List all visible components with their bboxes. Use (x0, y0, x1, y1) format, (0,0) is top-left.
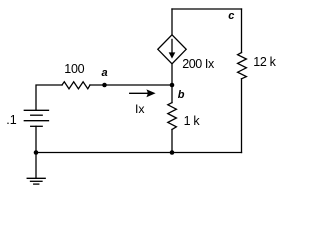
resistor R2 12k (vertical zigzag) (238, 53, 247, 79)
wire: node b down to 1k resistor (171, 85, 173, 103)
bottom junction dot at battery (34, 150, 39, 155)
Ix arrow shaft (130, 92, 148, 94)
wire: bottom rail (36, 152, 242, 154)
ground bar 2 (31, 180, 43, 182)
svg-text:b: b (178, 89, 185, 101)
wire: battery bottom down to bottom rail (35, 126, 37, 152)
wire: main horizontal rail from battery top corner to resistor 100 (36, 85, 62, 110)
svg-text:.1: .1 (6, 113, 16, 127)
wire: diamond top stem (171, 9, 173, 35)
battery V1 plate short bottom (31, 125, 43, 127)
svg-text:a: a (102, 67, 108, 79)
resistor R1 100 (horizontal zigzag) (62, 82, 90, 89)
svg-text:1 k: 1 k (184, 114, 201, 128)
resistor R3 1k (vertical zigzag) (168, 103, 177, 130)
wire: top rail (172, 8, 242, 10)
battery V1 plate long lower (24, 120, 48, 122)
battery V1 plate long top (24, 109, 48, 111)
svg-text:100: 100 (64, 62, 84, 76)
node a junction dot (102, 83, 107, 88)
dependent current source U1 diamond (158, 35, 186, 64)
wire: right branch lower (241, 79, 243, 153)
Ix arrowhead (146, 89, 155, 97)
wire: right branch upper (241, 9, 243, 53)
svg-text:c: c (228, 10, 234, 22)
bottom junction dot at 1k (170, 150, 175, 155)
wire: 1k resistor to bottom rail (171, 130, 173, 153)
node b junction dot (170, 83, 175, 88)
wire: node a segment from resistor to node b (90, 84, 172, 86)
svg-text:200 Ix: 200 Ix (182, 57, 215, 71)
battery V1 plate short upper (31, 114, 43, 116)
svg-text:Ix: Ix (135, 102, 145, 116)
wire: diamond bottom stem to node b (171, 64, 173, 85)
controlled-source arrow (inside diamond) (171, 39, 173, 53)
ground bar 1 (27, 177, 45, 179)
ground bar 3 (34, 183, 39, 185)
ground stub wire (35, 153, 37, 179)
svg-text:12 k: 12 k (253, 55, 276, 69)
